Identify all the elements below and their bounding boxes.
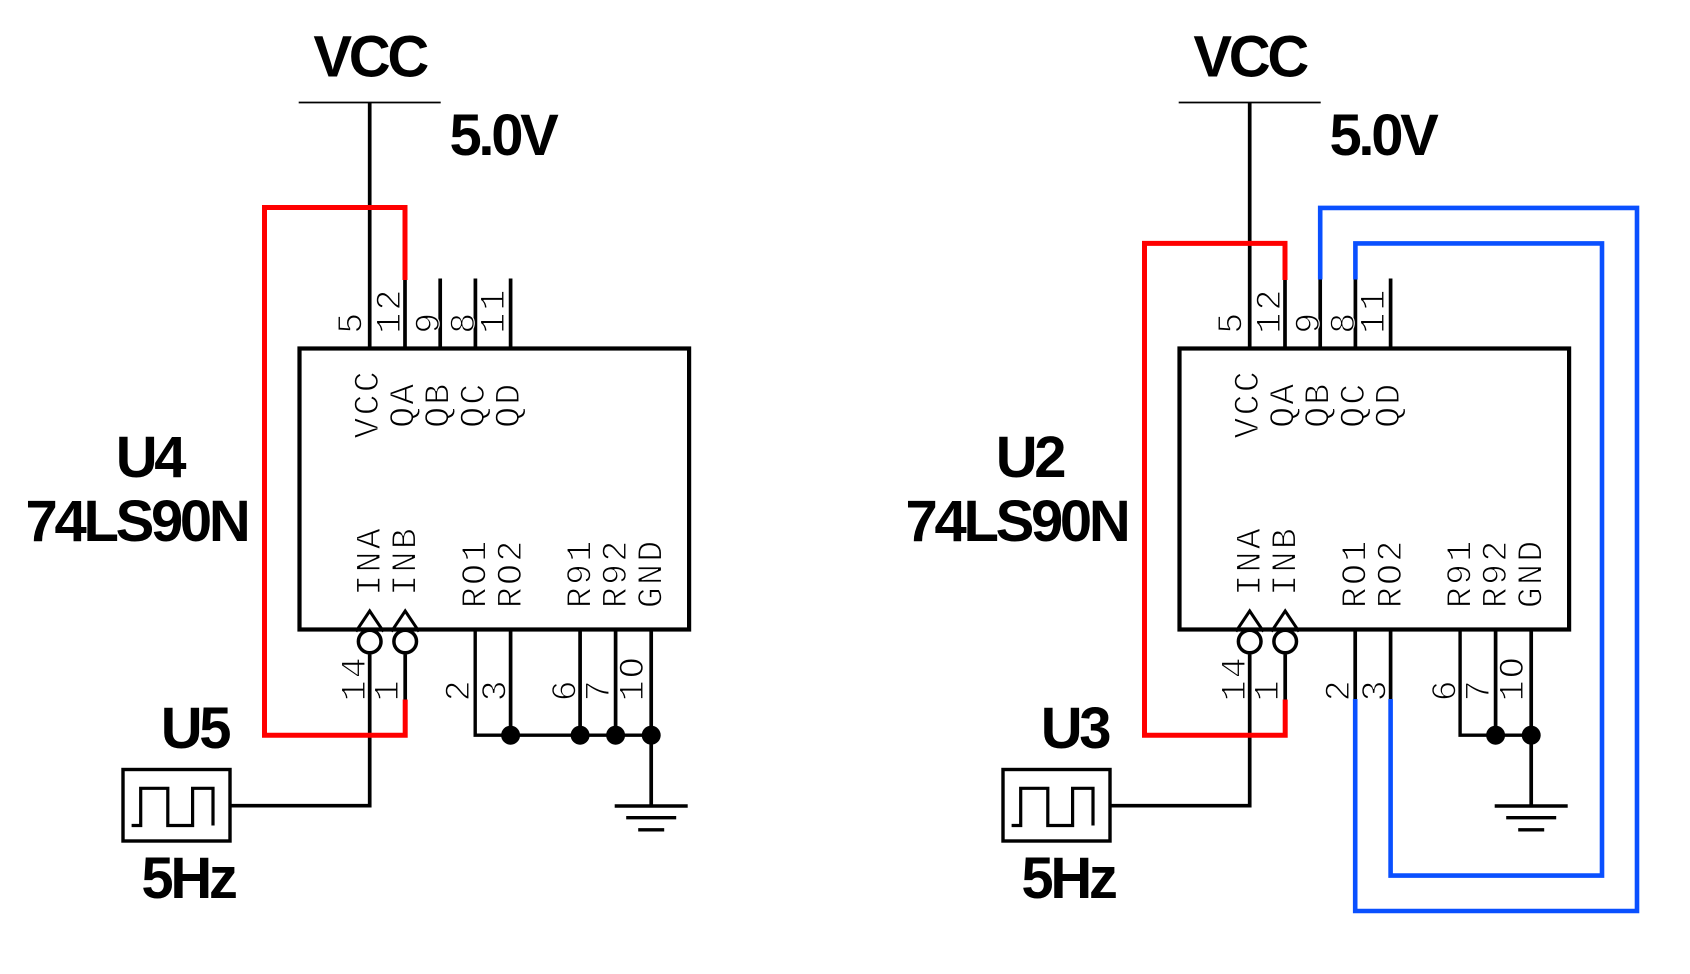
svg-text:QC: QC (1335, 381, 1375, 427)
svg-text:RO2: RO2 (1372, 539, 1412, 609)
svg-text:VCC: VCC (349, 369, 389, 439)
svg-text:5Hz: 5Hz (1021, 846, 1116, 911)
svg-text:QD: QD (490, 381, 530, 427)
svg-text:VCC: VCC (1193, 25, 1308, 90)
svg-text:74LS90N: 74LS90N (906, 489, 1128, 554)
svg-text:VCC: VCC (1229, 369, 1269, 439)
svg-text:R92: R92 (597, 539, 637, 609)
svg-text:U5: U5 (161, 696, 231, 761)
svg-text:U3: U3 (1041, 696, 1111, 761)
svg-text:QD: QD (1370, 381, 1410, 427)
svg-text:QB: QB (1300, 381, 1340, 427)
svg-text:QA: QA (385, 381, 425, 427)
svg-text:RO1: RO1 (1337, 539, 1377, 609)
svg-text:2: 2 (440, 678, 480, 701)
svg-text:INB: INB (387, 526, 427, 596)
svg-text:INA: INA (1231, 526, 1271, 596)
svg-text:1O: 1O (614, 655, 654, 701)
svg-text:11: 11 (1355, 287, 1395, 333)
svg-text:U4: U4 (116, 425, 187, 490)
svg-text:11: 11 (475, 287, 515, 333)
svg-text:QB: QB (420, 381, 460, 427)
svg-text:R91: R91 (1442, 539, 1482, 609)
svg-text:1: 1 (1249, 678, 1289, 701)
svg-text:5.0V: 5.0V (449, 103, 559, 168)
svg-text:GND: GND (633, 539, 673, 609)
svg-text:RO2: RO2 (492, 539, 532, 609)
svg-text:1: 1 (369, 678, 409, 701)
svg-text:5.0V: 5.0V (1329, 103, 1439, 168)
svg-text:12: 12 (371, 287, 411, 333)
svg-text:RO1: RO1 (457, 539, 497, 609)
svg-text:GND: GND (1513, 539, 1553, 609)
svg-text:12: 12 (1251, 287, 1291, 333)
svg-text:INB: INB (1267, 526, 1307, 596)
svg-text:74LS90N: 74LS90N (26, 489, 248, 554)
svg-text:5: 5 (1212, 311, 1252, 334)
svg-text:VCC: VCC (313, 25, 428, 90)
svg-text:3: 3 (1356, 678, 1396, 701)
svg-text:U2: U2 (996, 425, 1065, 490)
svg-text:INA: INA (351, 526, 391, 596)
svg-text:5: 5 (332, 311, 372, 334)
svg-text:1O: 1O (1494, 655, 1534, 701)
svg-text:3: 3 (476, 678, 516, 701)
svg-text:2: 2 (1320, 678, 1360, 701)
svg-text:R91: R91 (562, 539, 602, 609)
svg-text:R92: R92 (1477, 539, 1517, 609)
svg-text:QC: QC (455, 381, 495, 427)
svg-text:QA: QA (1265, 381, 1305, 427)
svg-text:5Hz: 5Hz (141, 846, 236, 911)
